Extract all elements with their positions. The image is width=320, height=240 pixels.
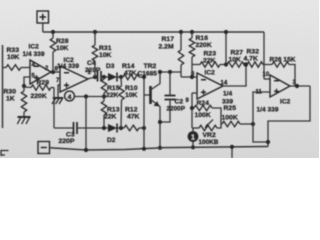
pin 7 label xyxy=(56,78,60,84)
label R12 47K xyxy=(125,107,140,121)
resistor R32 xyxy=(244,62,264,67)
wire left edge input xyxy=(2,45,4,128)
wire emitter down xyxy=(159,106,161,148)
wire stub bottom exit xyxy=(231,147,233,158)
node output a xyxy=(51,70,55,74)
pin 10 label xyxy=(263,72,270,78)
node R24 xyxy=(190,106,194,110)
label C3 220P xyxy=(59,132,75,146)
node collector xyxy=(158,70,162,74)
wire rail feed R27 xyxy=(225,32,227,65)
label R26 15K xyxy=(270,57,296,64)
terminal circle 1 xyxy=(188,128,199,147)
node output d xyxy=(295,84,299,88)
resistor R26 xyxy=(264,62,295,86)
node rail R28 xyxy=(51,30,55,34)
resistor R15 xyxy=(101,77,106,97)
resistor R29 xyxy=(24,85,54,90)
label R32 4.7K xyxy=(244,49,260,63)
label R25 100K xyxy=(222,105,238,122)
negative supply rail xyxy=(50,147,269,151)
node rail R16 xyxy=(190,30,194,34)
pin 7 wire xyxy=(58,85,60,97)
node R23 R27 xyxy=(224,62,228,66)
node pin11 wire tee xyxy=(266,140,270,144)
wire D2 out xyxy=(118,127,125,129)
transistor TR2 collector xyxy=(151,72,161,90)
label R16 220K xyxy=(196,35,212,49)
label 1/4 339 (d) xyxy=(257,107,279,114)
node base col bottom xyxy=(142,126,146,130)
pin 11 label xyxy=(256,90,263,96)
edge mark bottom left xyxy=(1,151,9,157)
wire from plus box to positive rail xyxy=(42,23,44,32)
wire C3 left xyxy=(54,127,74,129)
resistor R10 xyxy=(119,77,124,128)
wire edge to R33 xyxy=(3,67,7,69)
node pin8 xyxy=(190,75,194,79)
node R15 tap xyxy=(102,75,106,79)
label TR2 C1685 xyxy=(138,63,158,78)
pin 5 label xyxy=(32,74,36,80)
wire pin 5 xyxy=(24,77,30,86)
pin 9 label xyxy=(186,98,190,104)
label 1/4 339 (a) xyxy=(23,51,45,58)
op-amp IC2a xyxy=(30,60,51,84)
label 1/4 339 (b) xyxy=(57,63,79,70)
wire collector node xyxy=(160,71,181,73)
node rail feed xyxy=(224,30,228,34)
wire C4 to node xyxy=(101,76,108,78)
label R17 2.2M xyxy=(159,36,175,51)
resistor R13 xyxy=(101,97,106,129)
resistor R17 xyxy=(178,32,183,77)
label D3 xyxy=(106,63,115,70)
ground below R30 xyxy=(17,117,30,124)
label R13 22K xyxy=(104,107,120,121)
wire R14 to base column xyxy=(139,76,144,78)
capacitor C2 xyxy=(160,72,176,122)
label IC2 (c) xyxy=(205,70,216,77)
label IC2 (a) xyxy=(29,44,40,51)
node R30/R29 xyxy=(22,84,26,88)
diode D2 xyxy=(108,124,117,133)
resistor R24 xyxy=(192,105,212,110)
pin 1 label xyxy=(88,70,92,76)
label IC2 (b) xyxy=(64,57,75,64)
wire branch down to bottom rail xyxy=(85,97,87,151)
op-amp IC2b xyxy=(60,66,88,92)
node rail R31 xyxy=(93,30,97,34)
label C4 220P xyxy=(85,60,101,74)
node base col rail xyxy=(142,147,146,151)
resistor R25 xyxy=(221,121,240,126)
ground pin 7 xyxy=(52,98,63,104)
node stub xyxy=(230,145,234,149)
resistor R27 xyxy=(227,62,244,67)
node R14 base col xyxy=(142,75,146,79)
resistor R33 xyxy=(6,65,21,70)
node pin11 col xyxy=(251,122,255,126)
transistor TR2 bar xyxy=(149,86,152,104)
resistor R16 xyxy=(189,32,194,65)
node mid divider xyxy=(102,94,106,98)
label R14 47K xyxy=(122,63,137,77)
pin 14 label xyxy=(221,81,228,87)
node R10 tap xyxy=(119,75,123,79)
wire pin9 column xyxy=(191,93,193,128)
wire R33 to pin 4 xyxy=(21,67,30,69)
label R27 10K xyxy=(229,50,244,64)
wire column to C3 xyxy=(53,88,55,129)
node D2 left xyxy=(102,126,106,130)
terminal circle 4 xyxy=(65,91,75,101)
diode D3 xyxy=(108,73,117,82)
wire node line xyxy=(75,96,104,98)
resistor R30 xyxy=(21,86,26,117)
potentiometer VR2 xyxy=(192,124,221,131)
wire IC2d output xyxy=(290,85,310,87)
label R28 10K xyxy=(56,38,69,52)
label R30 1K xyxy=(4,89,17,103)
capacitor C3 xyxy=(74,122,78,134)
label R23 22K xyxy=(203,51,216,65)
wire R12 to base column xyxy=(139,127,144,129)
node rail R17 xyxy=(179,30,183,34)
wire base column xyxy=(143,77,145,149)
label R31 10K xyxy=(99,45,112,59)
positive supply rail xyxy=(43,31,264,33)
node branch rail xyxy=(84,148,88,152)
label R33 10K xyxy=(7,47,20,61)
resistor R12 xyxy=(124,125,139,130)
node output feed xyxy=(244,62,248,66)
node circle4 branch xyxy=(84,94,88,98)
resistor R23 xyxy=(192,62,227,67)
resistor R31 xyxy=(92,32,97,77)
VR2 wiper arrow xyxy=(205,120,213,128)
wire R25 to pin11 col xyxy=(240,123,253,125)
wire R24 to R25 xyxy=(212,108,221,124)
wire base lead xyxy=(144,94,151,96)
label 339 (c) xyxy=(222,99,233,106)
capacitor C4 xyxy=(98,71,102,82)
pin 3 label xyxy=(293,80,297,86)
wire IC2b out xyxy=(88,77,97,79)
op-amp IC2d xyxy=(270,75,290,97)
node emitter rail xyxy=(158,146,162,150)
wire IC2c output xyxy=(223,65,246,87)
node R31 out xyxy=(93,75,97,79)
power plus terminal box xyxy=(37,11,49,23)
label R10 10K xyxy=(125,85,138,99)
pin 11 wire xyxy=(253,92,270,142)
label VR2 100KB xyxy=(199,132,219,146)
node C2 emitter join xyxy=(158,120,162,124)
wire IC2a out to pin 6 xyxy=(51,71,60,73)
wire output loop xyxy=(268,86,310,147)
pin 9 wire xyxy=(192,92,197,94)
transistor TR2 emitter xyxy=(151,100,160,107)
label IC2 (d) xyxy=(280,99,291,106)
wire D3 out xyxy=(118,76,124,78)
node C2 tap xyxy=(168,70,172,74)
wire pin 8 xyxy=(181,76,197,78)
label 1/4 (c) xyxy=(223,91,232,98)
pin 8 label xyxy=(191,72,195,78)
label R24 100K xyxy=(195,100,211,119)
wire R16 to pin8 node xyxy=(191,65,193,78)
pin 2 label xyxy=(45,66,49,72)
label C2 2200P xyxy=(167,99,186,113)
resistor R28 xyxy=(50,32,55,72)
wire rail right end down xyxy=(263,32,265,79)
pin 10 wire xyxy=(264,78,270,80)
label D2 xyxy=(107,137,116,144)
label R29 220K xyxy=(31,80,50,101)
negative terminal box xyxy=(38,142,50,154)
resistor R14 xyxy=(123,74,139,79)
pin 4 label xyxy=(32,63,36,69)
op-amp IC2c xyxy=(197,73,223,99)
node R27 R32 xyxy=(243,62,247,66)
label R15 22K xyxy=(106,85,120,99)
node R10 bottom xyxy=(119,126,123,130)
pin 6 label xyxy=(55,67,59,73)
node VR2 rail xyxy=(191,145,195,149)
wire C3 right xyxy=(77,127,108,129)
